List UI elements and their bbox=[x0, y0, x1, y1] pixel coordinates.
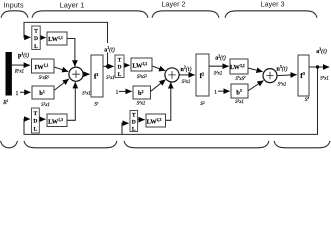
svg-text:S2x1: S2x1 bbox=[182, 79, 191, 86]
svg-text:Layer 3: Layer 3 bbox=[261, 0, 285, 9]
svg-text:Inputs: Inputs bbox=[3, 0, 23, 9]
svg-text:S3x1: S3x1 bbox=[320, 75, 329, 82]
svg-text:a1(t): a1(t) bbox=[104, 46, 115, 53]
svg-text:R1x1: R1x1 bbox=[14, 68, 24, 75]
svg-text:Layer 1: Layer 1 bbox=[60, 1, 85, 10]
svg-text:1: 1 bbox=[16, 91, 19, 97]
svg-text:S2x1: S2x1 bbox=[214, 70, 223, 77]
svg-text:S3x1: S3x1 bbox=[235, 99, 244, 106]
svg-text:S3x1: S3x1 bbox=[278, 81, 287, 88]
svg-text:L: L bbox=[132, 127, 136, 133]
svg-text:a2(t): a2(t) bbox=[215, 54, 226, 61]
svg-text:S1x1: S1x1 bbox=[82, 90, 91, 97]
svg-text:D: D bbox=[117, 65, 121, 71]
svg-text:p1(t): p1(t) bbox=[18, 52, 29, 59]
svg-text:1: 1 bbox=[116, 90, 119, 96]
svg-text:a3(t): a3(t) bbox=[316, 48, 327, 55]
svg-text:T: T bbox=[132, 113, 136, 119]
svg-text:L: L bbox=[34, 127, 38, 133]
svg-text:D: D bbox=[33, 119, 37, 125]
svg-text:T: T bbox=[34, 29, 38, 35]
svg-text:D: D bbox=[34, 36, 38, 42]
svg-text:T: T bbox=[118, 57, 122, 63]
svg-text:n2(t): n2(t) bbox=[181, 66, 192, 73]
svg-text:S1x1: S1x1 bbox=[41, 101, 50, 108]
svg-text:1: 1 bbox=[214, 89, 217, 95]
svg-text:L: L bbox=[118, 72, 122, 78]
svg-text:S2x1: S2x1 bbox=[137, 100, 146, 107]
svg-text:S1x1: S1x1 bbox=[106, 75, 115, 82]
svg-text:T: T bbox=[34, 111, 38, 117]
svg-text:Layer 2: Layer 2 bbox=[162, 0, 186, 9]
svg-text:n3(t): n3(t) bbox=[277, 65, 288, 72]
svg-text:L: L bbox=[34, 44, 38, 50]
svg-text:D: D bbox=[132, 120, 136, 126]
